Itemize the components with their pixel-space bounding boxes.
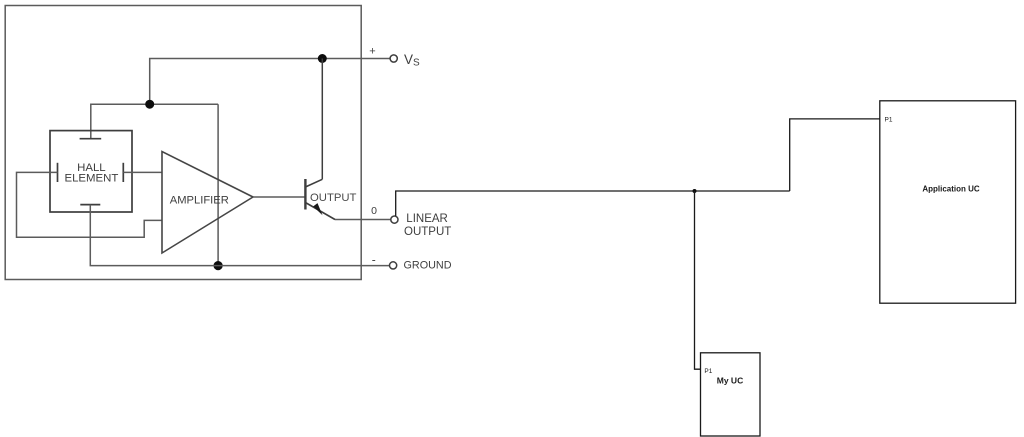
label LINEAR OUTPUT xyxy=(404,213,451,238)
terminal Vs xyxy=(390,55,397,62)
hall element H1 xyxy=(50,131,132,212)
svg-text:My UC: My UC xyxy=(717,376,743,386)
transistor Q1 xyxy=(305,59,335,220)
wire external output net xyxy=(396,191,790,216)
hall element label xyxy=(64,162,118,185)
My UC block xyxy=(701,353,761,436)
wire amp output to base xyxy=(253,196,305,198)
svg-text:OUTPUT: OUTPUT xyxy=(404,226,451,238)
node junction external xyxy=(693,189,697,193)
svg-text:GROUND: GROUND xyxy=(404,260,452,272)
svg-text:0: 0 xyxy=(371,205,377,217)
node junction collector to Vs xyxy=(318,54,327,63)
svg-text:LINEAR: LINEAR xyxy=(406,213,448,225)
svg-text:P1: P1 xyxy=(704,368,712,375)
wire to Application UC xyxy=(790,119,880,191)
svg-text:P1: P1 xyxy=(885,116,893,123)
terminal GROUND xyxy=(390,262,397,269)
node junction amp to ground xyxy=(214,261,223,270)
wire Vs rail xyxy=(150,59,390,105)
transistor emitter arrow xyxy=(313,203,322,215)
wire hall top supply xyxy=(91,104,218,139)
svg-text:+: + xyxy=(369,46,375,58)
wire hall bottom to ground rail xyxy=(90,205,390,266)
wire hall right electrode to amp xyxy=(123,171,162,173)
node junction on Vs rail xyxy=(145,100,154,109)
amplifier A1 xyxy=(162,152,253,254)
wire amplifier supply (vertical through amp) xyxy=(217,104,219,265)
svg-text:OUTPUT: OUTPUT xyxy=(310,192,357,204)
Application UC block xyxy=(880,101,1016,303)
wire emitter to output terminal xyxy=(335,219,391,221)
svg-text:ELEMENT: ELEMENT xyxy=(64,173,118,185)
svg-text:Application UC: Application UC xyxy=(922,184,980,193)
terminal LINEAR OUTPUT xyxy=(391,216,398,223)
svg-text:-: - xyxy=(372,253,376,267)
svg-text:AMPLIFIER: AMPLIFIER xyxy=(170,194,229,206)
wire to My UC xyxy=(695,191,701,369)
wire hall left electrode feedback xyxy=(17,172,163,237)
sensor package outline xyxy=(5,6,361,280)
